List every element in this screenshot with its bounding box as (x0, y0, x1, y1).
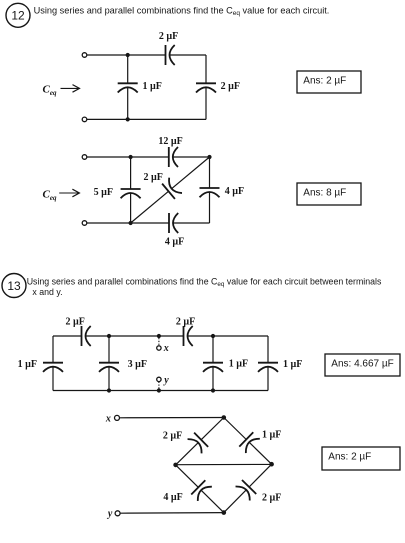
node bottom junction b1 (circuit 3) (107, 388, 111, 392)
svg-text:4 µF: 4 µF (165, 237, 184, 248)
stub wire to terminal y (circuit 3) (158, 382, 160, 389)
capacitor 5uF (circuit 2 left) (121, 189, 141, 198)
capacitor 2uF (circuit 1 right) (196, 83, 216, 92)
wire right branch lower (circuit 3) (267, 367, 269, 391)
wire right branch upper (circuit 2) (209, 157, 211, 188)
svg-text:x: x (163, 343, 169, 354)
svg-text:Using series and parallel comb: Using series and parallel combinations f… (27, 277, 382, 289)
wire top rail left segment (circuit 1) (87, 54, 166, 56)
node bottom (circuit 4) (222, 510, 227, 515)
wire top rail left segment (circuit 2) (87, 156, 169, 158)
wire bottom-right edge lower segment (circuit 4) (224, 490, 247, 513)
node right-top junction (circuit 2) (207, 155, 211, 159)
svg-text:1 µF: 1 µF (262, 430, 281, 441)
wire top rail segment 2 (circuit 3) (86, 335, 184, 337)
wire branch b2 upper (circuit 3) (212, 336, 214, 363)
wire branch b1 upper (circuit 3) (108, 336, 110, 363)
wire diagonal upper segment (circuit 2) (172, 157, 210, 189)
node y stub junction (circuit 3) (157, 388, 161, 392)
wire bottom-left edge lower segment (circuit 4) (201, 490, 224, 512)
terminal circle (circuit 2 bottom-left) (82, 221, 87, 226)
svg-text:Ans: 2 µF: Ans: 2 µF (328, 451, 371, 462)
capacitor 2uF (circuit 3 top-left) (82, 326, 91, 346)
svg-text:2 µF: 2 µF (262, 493, 281, 504)
wire middle bridge (circuit 4) (178, 463, 270, 465)
node right (circuit 4) (269, 462, 274, 467)
svg-text:Using series and parallel comb: Using series and parallel combinations f… (34, 6, 330, 18)
wire right branch lower (circuit 1) (205, 87, 207, 119)
wire top-left edge upper segment (circuit 4) (201, 418, 224, 440)
svg-text:2 µF: 2 µF (66, 317, 85, 328)
svg-text:Ans: 4.667 µF: Ans: 4.667 µF (331, 358, 393, 369)
wire bottom-left edge upper segment (circuit 4) (176, 465, 199, 487)
wire left branch lower (circuit 1) (127, 87, 129, 119)
node bottom junction b2 (circuit 3) (211, 388, 215, 392)
node top (circuit 4) (222, 415, 227, 420)
wire left branch lower (circuit 3) (52, 367, 54, 391)
capacitor 1uF (circuit 3 middle-right) (203, 363, 223, 372)
node left (circuit 4) (173, 463, 178, 468)
svg-text:2 µF: 2 µF (163, 431, 182, 442)
node top junction b1 (circuit 3) (107, 334, 111, 338)
wire top rail segment 1 (circuit 3) (53, 335, 82, 337)
answer box 3 (325, 354, 400, 376)
terminal circle (circuit 2 top-left) (82, 155, 87, 160)
wire left branch upper (circuit 2) (130, 157, 132, 189)
terminal circle (circuit 1 bottom-left) (82, 117, 87, 122)
svg-text:1 µF: 1 µF (143, 81, 162, 92)
svg-text:Ceq: Ceq (43, 189, 57, 203)
capacitor 12uF (circuit 2 top) (169, 147, 178, 167)
svg-text:1 µF: 1 µF (229, 359, 248, 370)
terminal circle (circuit 1 top-left) (82, 53, 87, 58)
svg-text:x: x (105, 413, 111, 424)
capacitor 1uF (circuit 3 left) (43, 363, 63, 372)
wire top rail right segment (circuit 2) (173, 156, 210, 158)
capacitor 4uF (circuit 4 bottom-left) (191, 480, 212, 501)
wire bottom rail (circuit 3) (53, 390, 268, 392)
wire branch b1 lower (circuit 3) (108, 367, 110, 391)
wire bottom rail (circuit 1) (87, 118, 206, 120)
wire left branch upper (circuit 1) (127, 55, 129, 83)
wire left branch lower (circuit 2) (130, 193, 132, 223)
svg-text:13: 13 (7, 279, 21, 293)
svg-text:2 µF: 2 µF (221, 81, 240, 92)
svg-text:2 µF: 2 µF (176, 317, 195, 328)
wire branch b2 lower (circuit 3) (212, 367, 214, 391)
svg-text:12 µF: 12 µF (158, 136, 182, 147)
capacitor 4uF (circuit 2 right) (200, 188, 220, 197)
node top junction (circuit 1) (126, 53, 130, 57)
capacitor 2uF (circuit 2 diagonal) (162, 178, 182, 199)
svg-text:2 µF: 2 µF (144, 172, 163, 183)
terminal circle y (circuit 3) (157, 377, 161, 381)
node left-top junction (circuit 2) (129, 155, 133, 159)
answer box 1 (297, 71, 361, 93)
arrow Ceq (circuit 1) (61, 87, 79, 89)
svg-text:Ceq: Ceq (43, 84, 57, 98)
svg-text:3 µF: 3 µF (128, 359, 147, 370)
svg-text:x and y.: x and y. (32, 287, 62, 297)
wire right branch lower (circuit 2) (209, 192, 211, 223)
capacitor 2uF (circuit 1 top) (166, 45, 175, 65)
svg-text:y: y (107, 509, 113, 520)
svg-text:Ans: 8 µF: Ans: 8 µF (303, 187, 346, 198)
wire right branch upper (circuit 1) (205, 55, 207, 83)
svg-text:Ans: 2 µF: Ans: 2 µF (303, 75, 346, 86)
capacitor 1uF (circuit 4 top-right) (239, 432, 260, 453)
svg-text:12: 12 (11, 9, 25, 23)
capacitor 2uF (circuit 4 bottom-right) (236, 480, 257, 501)
stub wire to terminal x (circuit 3) (158, 338, 160, 346)
capacitor 2uF (circuit 3 top-right) (184, 326, 193, 346)
wire top-right edge upper segment (circuit 4) (224, 418, 247, 440)
node x stub junction (circuit 3) (157, 334, 161, 338)
wire top-right edge lower segment (circuit 4) (249, 442, 272, 464)
node top junction b2 (circuit 3) (211, 334, 215, 338)
svg-text:4 µF: 4 µF (225, 186, 244, 197)
svg-text:5 µF: 5 µF (94, 187, 113, 198)
wire from terminal y to bottom node (circuit 4) (120, 512, 224, 515)
wire top-left edge lower segment (circuit 4) (176, 443, 199, 465)
node bottom junction (circuit 1) (126, 117, 130, 121)
svg-text:1 µF: 1 µF (283, 359, 302, 370)
terminal circle x (circuit 4) (115, 415, 120, 420)
arrow Ceq (circuit 2) (59, 192, 78, 194)
answer box 4 (322, 447, 400, 470)
capacitor 2uF (circuit 4 top-left) (188, 433, 209, 454)
wire top rail right segment (circuit 1) (170, 54, 207, 56)
terminal circle y (circuit 4) (115, 511, 120, 516)
wire from terminal x to top node (circuit 4) (120, 417, 224, 419)
svg-text:4 µF: 4 µF (163, 492, 182, 503)
wire top rail segment 3 (circuit 3) (188, 335, 269, 337)
capacitor 1uF (circuit 3 right) (258, 363, 278, 372)
capacitor 1uF (circuit 1 middle) (118, 83, 138, 92)
capacitor 4uF (circuit 2 bottom) (169, 213, 178, 233)
wire left branch upper (circuit 3) (52, 336, 54, 363)
problem number circle 12 (6, 3, 30, 27)
wire diagonal lower segment (circuit 2) (131, 191, 169, 223)
svg-text:1 µF: 1 µF (18, 359, 37, 370)
answer box 2 (297, 183, 361, 205)
wire bottom rail right segment (circuit 2) (173, 222, 210, 224)
problem number circle 13 (2, 274, 26, 298)
svg-text:y: y (163, 375, 169, 386)
svg-text:2 µF: 2 µF (159, 31, 178, 42)
wire right branch upper (circuit 3) (267, 336, 269, 363)
terminal circle x (circuit 3) (157, 346, 161, 350)
capacitor 3uF (circuit 3) (99, 363, 119, 372)
wire bottom-right edge upper segment (circuit 4) (249, 464, 272, 487)
wire bottom rail left segment (circuit 2) (87, 222, 169, 224)
node left-bottom junction (circuit 2) (129, 221, 133, 225)
